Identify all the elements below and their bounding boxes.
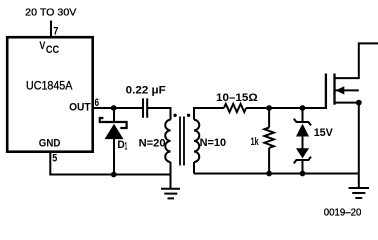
svg-text:N=20: N=20 xyxy=(139,138,166,150)
transformer T1 core xyxy=(180,117,184,166)
transistor Q1 gate bar xyxy=(325,74,327,110)
op-amp U1 UC1845A box xyxy=(7,37,93,152)
svg-text:CC: CC xyxy=(46,44,59,56)
wire secondary bottom rail xyxy=(194,173,359,175)
svg-text:GND: GND xyxy=(39,138,61,150)
resistor R1 zigzag xyxy=(224,104,246,112)
wire pin 5 down xyxy=(49,153,51,175)
node junction dot diode bottom xyxy=(111,172,117,178)
svg-text:7: 7 xyxy=(53,26,58,38)
transformer T1 primary phasing dot xyxy=(173,114,176,117)
zener VR1 cathode bar xyxy=(294,119,311,126)
svg-text:10–15Ω: 10–15Ω xyxy=(216,92,258,104)
wire resistor to gate xyxy=(246,107,326,109)
wire OUT node down to diode xyxy=(113,108,115,122)
ground symbol primary xyxy=(161,175,180,199)
svg-text:20 TO 30V: 20 TO 30V xyxy=(25,7,76,19)
node junction dot top of zener xyxy=(300,105,306,111)
transformer T1 secondary winding N=10 xyxy=(194,120,199,162)
transistor Q1 channel bar xyxy=(333,74,335,105)
wire primary winding bottom to ground xyxy=(170,162,172,175)
zener VR1 triangle xyxy=(296,124,309,137)
transistor Q1 body wire xyxy=(335,89,359,91)
transistor Q1 body arrow xyxy=(336,86,345,94)
svg-text:1: 1 xyxy=(125,140,128,152)
transformer T1 secondary phasing dot xyxy=(187,114,190,117)
ground symbol secondary xyxy=(349,174,369,199)
resistor R2 1k zigzag xyxy=(264,128,273,148)
transistor Q1 gate wire xyxy=(303,107,326,109)
zener VR2 wire to bottom rail xyxy=(302,160,304,174)
svg-text:0.22 μF: 0.22 μF xyxy=(126,85,166,97)
node junction dot OUT xyxy=(111,105,117,111)
pin VCC label xyxy=(39,40,59,56)
wire source down to rail xyxy=(358,103,360,174)
diode D1 triangle xyxy=(105,124,124,139)
node junction dot source xyxy=(356,100,362,106)
svg-text:UC1845A: UC1845A xyxy=(26,79,73,93)
zener VR1 wire from top node xyxy=(302,108,304,122)
node junction dot top of 1k xyxy=(266,105,272,111)
diode D1 schottky cathode bar xyxy=(100,118,127,128)
transistor Q1 source wire xyxy=(335,102,359,104)
wire primary bottom rail xyxy=(49,174,170,176)
svg-text:15V: 15V xyxy=(314,127,334,139)
transformer T1 primary winding N=20 xyxy=(165,120,170,162)
transistor Q1 drain wire xyxy=(335,43,378,78)
zener VR2 cathode bar xyxy=(294,157,311,164)
wire secondary winding top to resistor xyxy=(194,108,224,120)
wire secondary winding bottom xyxy=(193,162,195,174)
wire VIN to pin 7 xyxy=(50,21,52,38)
node junction dot 1k bottom xyxy=(266,171,272,177)
capacitor C1 plates xyxy=(143,98,147,117)
svg-text:0019–20: 0019–20 xyxy=(324,207,362,219)
zener middle wire anode to anode xyxy=(302,136,304,149)
diode D1 anode wire to bottom rail xyxy=(113,139,115,175)
zener VR2 triangle xyxy=(296,148,309,158)
svg-text:1k: 1k xyxy=(251,136,260,148)
wire capacitor to transformer primary xyxy=(147,108,170,120)
wire OUT pin 6 to capacitor xyxy=(93,107,143,109)
svg-text:OUT: OUT xyxy=(69,101,91,113)
svg-text:N=10: N=10 xyxy=(200,137,227,149)
diode D1 label xyxy=(117,139,127,152)
node junction dot zener bottom xyxy=(300,171,306,177)
resistor R2 1k lead top xyxy=(268,108,270,128)
resistor R2 1k lead bottom xyxy=(268,148,270,174)
svg-text:5: 5 xyxy=(52,152,57,164)
